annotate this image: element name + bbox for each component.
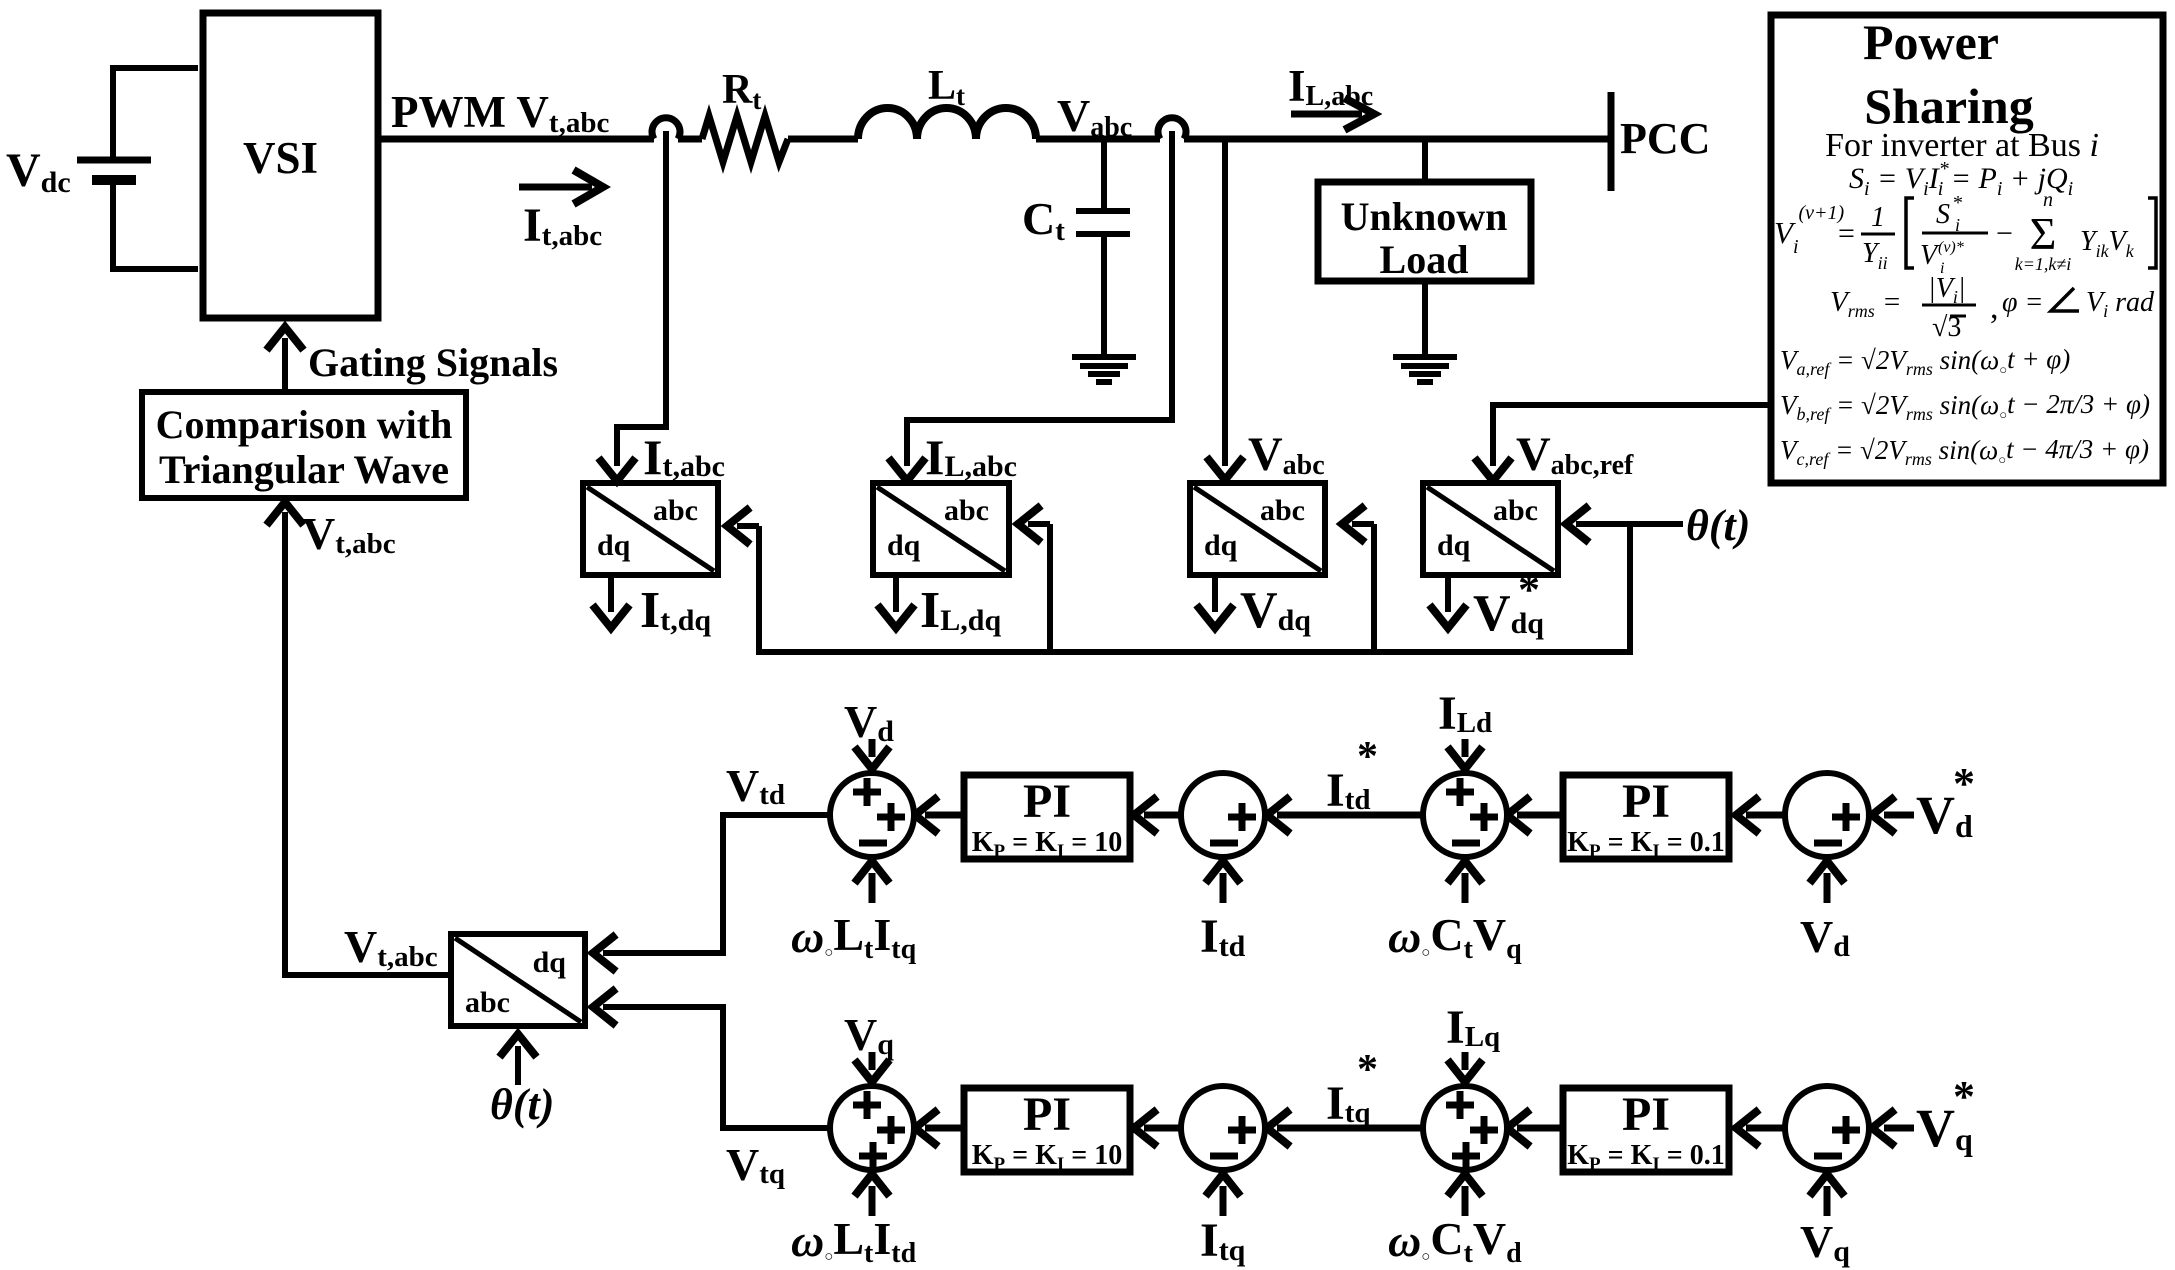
svg-text:−: −	[1996, 217, 2013, 250]
arrow wCtVd into S2q	[1462, 1186, 1469, 1216]
svg-text:ω○CtVq: ω○CtVq	[1388, 909, 1522, 965]
summing junction S4d	[830, 773, 914, 857]
svg-text:PCC: PCC	[1620, 114, 1710, 163]
resistor Rt	[702, 116, 788, 162]
svg-text:Vtq: Vtq	[726, 1139, 785, 1190]
svg-text:Rt: Rt	[722, 67, 761, 115]
theta distribution bus	[1627, 524, 1633, 652]
arrow wLtItd into S4q	[869, 1186, 876, 1216]
svg-text:It,dq: It,dq	[640, 582, 711, 639]
svg-text:PI: PI	[1622, 775, 1670, 828]
svg-text:For inverter at Bus i: For inverter at Bus i	[1825, 127, 2099, 164]
svg-text:Vabc: Vabc	[1248, 428, 1325, 481]
arrow ILd into S2d	[1462, 739, 1469, 757]
wire It,abc into box	[617, 131, 666, 466]
svg-text:Comparison with: Comparison with	[156, 402, 453, 447]
svg-text:abc: abc	[1493, 494, 1538, 527]
arrow V*dq output	[1445, 575, 1451, 612]
arrow S1q to PI 0.1 q	[1746, 1125, 1785, 1132]
inductor Lt	[858, 108, 1036, 139]
wire Vabc,ref from Power Sharing	[1493, 405, 1771, 466]
svg-text:*: *	[1953, 1072, 1975, 1121]
wire Vtd to dq box	[603, 815, 830, 953]
arrow Vq into S1q	[1824, 1186, 1831, 1216]
svg-text:It,abc: It,abc	[643, 429, 725, 485]
arrow Vdq output	[1212, 575, 1218, 612]
arrow Vq into S4q	[869, 1052, 876, 1070]
svg-text:abc: abc	[465, 986, 510, 1019]
svg-text:dq: dq	[533, 946, 567, 979]
summing junction S3q	[1181, 1086, 1265, 1170]
arrow S3q to PI 10 q	[1144, 1125, 1181, 1132]
transform box abc-dq Vabc	[1190, 483, 1325, 575]
svg-text:It,abc: It,abc	[523, 199, 602, 252]
svg-text:ω○LtItq: ω○LtItq	[791, 909, 917, 965]
svg-text:=: =	[1838, 217, 1855, 250]
arrow IL,abc	[1291, 111, 1362, 118]
svg-text:Vc,ref = √2Vrms sin(ω○t − 4π/3: Vc,ref = √2Vrms sin(ω○t − 4π/3 + φ)	[1780, 434, 2149, 469]
svg-text:Vq: Vq	[1800, 1216, 1850, 1268]
arrow theta into Vabc box	[1352, 521, 1374, 527]
summing junction S2d	[1423, 773, 1507, 857]
capacitor branch wire	[1101, 136, 1107, 210]
svg-text:n: n	[2043, 189, 2053, 211]
summing junction S3d	[1181, 773, 1265, 857]
wire resistor to inductor	[788, 136, 858, 143]
Power Sharing box	[1771, 15, 2163, 483]
svg-text:S: S	[1936, 199, 1950, 230]
arrow theta into IL box	[1028, 521, 1050, 527]
svg-text:Lt: Lt	[928, 63, 965, 111]
svg-text:Sharing: Sharing	[1864, 78, 2034, 134]
svg-text:PWM Vt,abc: PWM Vt,abc	[391, 87, 609, 139]
arrow PI to S2q	[1517, 1125, 1563, 1132]
svg-text:*: *	[1357, 1047, 1378, 1093]
svg-text:Vabc: Vabc	[1057, 90, 1132, 143]
arrow PI to S4q	[925, 1125, 964, 1132]
arrow wCtVq into S2d	[1462, 873, 1469, 903]
svg-text:dq: dq	[1204, 529, 1238, 562]
svg-text:dq: dq	[1437, 529, 1471, 562]
svg-text:Vd: Vd	[1800, 911, 1850, 963]
svg-text:ILq: ILq	[1446, 1001, 1500, 1054]
arrow wLtItq into S4d	[869, 873, 876, 903]
svg-text:Vabc,ref: Vabc,ref	[1516, 428, 1634, 481]
battery Vdc	[113, 68, 198, 160]
wire PWM output	[378, 136, 654, 143]
wire sensor IL tap	[907, 131, 1172, 466]
svg-text:Vd: Vd	[844, 696, 894, 748]
svg-text:*: *	[1953, 192, 1963, 214]
arrow S1d to PI 0.1 d	[1746, 812, 1785, 819]
PI box Kp=KI=0.1 (d)	[1563, 775, 1729, 859]
svg-text:IL,dq: IL,dq	[920, 582, 1001, 639]
riser to IL box	[1047, 524, 1053, 649]
svg-text:k=1,k≠i: k=1,k≠i	[2015, 254, 2072, 274]
arrow theta into Vref box	[1576, 521, 1683, 527]
wire Vtq to dq box	[603, 1007, 830, 1128]
svg-text:θ(t): θ(t)	[1686, 501, 1750, 550]
svg-text:Vt,abc: Vt,abc	[344, 921, 438, 973]
svg-text:PI: PI	[1023, 775, 1071, 828]
svg-text:V: V	[1920, 240, 1940, 271]
svg-text:Gating Signals: Gating Signals	[308, 340, 558, 385]
ground (load)	[1393, 354, 1457, 360]
arrow theta into dq-abc box	[515, 1046, 521, 1085]
svg-text:abc: abc	[944, 494, 989, 527]
Unknown Load box	[1318, 182, 1531, 281]
arrow theta into It box	[737, 523, 759, 529]
svg-text:ω○LtItd: ω○LtItd	[791, 1213, 917, 1269]
svg-text:ω○CtVd: ω○CtVd	[1388, 1213, 1522, 1269]
arrow S2d to S3d	[1277, 812, 1423, 819]
ground (filter)	[1072, 354, 1136, 360]
svg-text:ILd: ILd	[1438, 687, 1492, 740]
svg-text:abc: abc	[653, 494, 698, 527]
svg-text:Vb,ref = √2Vrms sin(ω○t − 2π/3: Vb,ref = √2Vrms sin(ω○t − 2π/3 + φ)	[1780, 389, 2150, 424]
arrow Itq into S3q	[1220, 1186, 1227, 1216]
arrow ILq into S2q	[1462, 1052, 1469, 1070]
arrow It,abc	[519, 184, 592, 191]
svg-text:Vq: Vq	[844, 1009, 894, 1061]
wire load to ground	[1422, 281, 1428, 356]
svg-text:dq: dq	[597, 529, 631, 562]
transform box dq-abc	[451, 934, 585, 1026]
PI box Kp=KI=10 (d)	[964, 775, 1130, 859]
svg-text:Vdq: Vdq	[1240, 582, 1311, 639]
transform box abc-dq It	[583, 483, 718, 575]
svg-text:Triangular Wave: Triangular Wave	[159, 447, 449, 492]
arrow It,dq output	[608, 575, 614, 612]
arrow Vd into S4d	[869, 739, 876, 757]
PI box Kp=KI=0.1 (q)	[1563, 1088, 1729, 1172]
arrow Gating Signals	[282, 338, 288, 392]
arrow PI to S4d	[925, 812, 964, 819]
arrow Vd* input	[1884, 812, 1914, 819]
summing junction S2q	[1423, 1086, 1507, 1170]
svg-text:Unknown: Unknown	[1341, 194, 1508, 239]
wire inductor to node Vabc	[1036, 136, 1160, 143]
svg-text:IL,abc: IL,abc	[1288, 61, 1373, 112]
svg-text:Itq: Itq	[1200, 1214, 1246, 1267]
PI box Kp=KI=10 (q)	[964, 1088, 1130, 1172]
current sensor It,abc	[652, 118, 680, 139]
svg-text:φ =: φ =	[2002, 287, 2043, 318]
inverter VSI box	[203, 13, 378, 318]
wire node Vabc tap	[1222, 139, 1228, 466]
svg-text:Σ: Σ	[2030, 208, 2057, 259]
arrow S2q to S3q	[1277, 1125, 1423, 1132]
riser to Vabc box	[1371, 524, 1377, 649]
svg-text:Vtd: Vtd	[726, 760, 785, 811]
svg-text:PI: PI	[1023, 1088, 1071, 1141]
wire to PCC	[1184, 136, 1611, 143]
svg-text:Power: Power	[1863, 14, 1999, 70]
svg-text:dq: dq	[887, 529, 921, 562]
arrow PI to S2d	[1517, 812, 1563, 819]
svg-text:Vi rad: Vi rad	[2086, 287, 2155, 321]
svg-text:Load: Load	[1380, 237, 1469, 282]
arrow IL,dq output	[893, 575, 899, 612]
wire Vt,abc feedback	[285, 512, 451, 975]
arrow S3d to PI 10 d	[1144, 812, 1181, 819]
svg-text:Ct: Ct	[1022, 193, 1065, 247]
svg-text:PI: PI	[1622, 1088, 1670, 1141]
riser to It box	[756, 526, 762, 649]
svg-text:VSI: VSI	[243, 133, 318, 183]
Comparison with Triangular Wave box	[142, 392, 466, 498]
svg-text:abc: abc	[1260, 494, 1305, 527]
capacitor Ct	[1076, 208, 1130, 214]
svg-text:Itd: Itd	[1200, 910, 1246, 963]
svg-text:Vt,abc: Vt,abc	[302, 508, 396, 560]
summing junction S1q	[1785, 1086, 1869, 1170]
PCC bus bar	[1608, 92, 1615, 191]
svg-text:,: ,	[1990, 289, 1999, 326]
arrow Vq* input	[1884, 1125, 1914, 1132]
svg-text:θ(t): θ(t)	[490, 1080, 554, 1129]
svg-text:*: *	[1518, 565, 1540, 614]
svg-text:(v)*: (v)*	[1938, 239, 1964, 256]
summing junction S1d	[1785, 773, 1869, 857]
svg-text:Vdc: Vdc	[6, 144, 71, 199]
svg-text:IL,abc: IL,abc	[925, 429, 1017, 485]
arrow Itd into S3d	[1220, 873, 1227, 903]
arrow Vd into S1d	[1824, 873, 1831, 903]
wire to Unknown Load	[1422, 136, 1428, 182]
svg-text:*: *	[1357, 734, 1378, 780]
current sensor IL,abc	[1158, 118, 1186, 139]
svg-text:1: 1	[1871, 202, 1885, 233]
summing junction S4q	[830, 1086, 914, 1170]
transform box abc-dq Vref	[1423, 483, 1558, 575]
transform box abc-dq IL	[873, 483, 1009, 575]
svg-text:|Vi|: |Vi|	[1928, 273, 1966, 307]
wire sensor to resistor	[678, 136, 702, 143]
svg-text:*: *	[1953, 759, 1975, 808]
